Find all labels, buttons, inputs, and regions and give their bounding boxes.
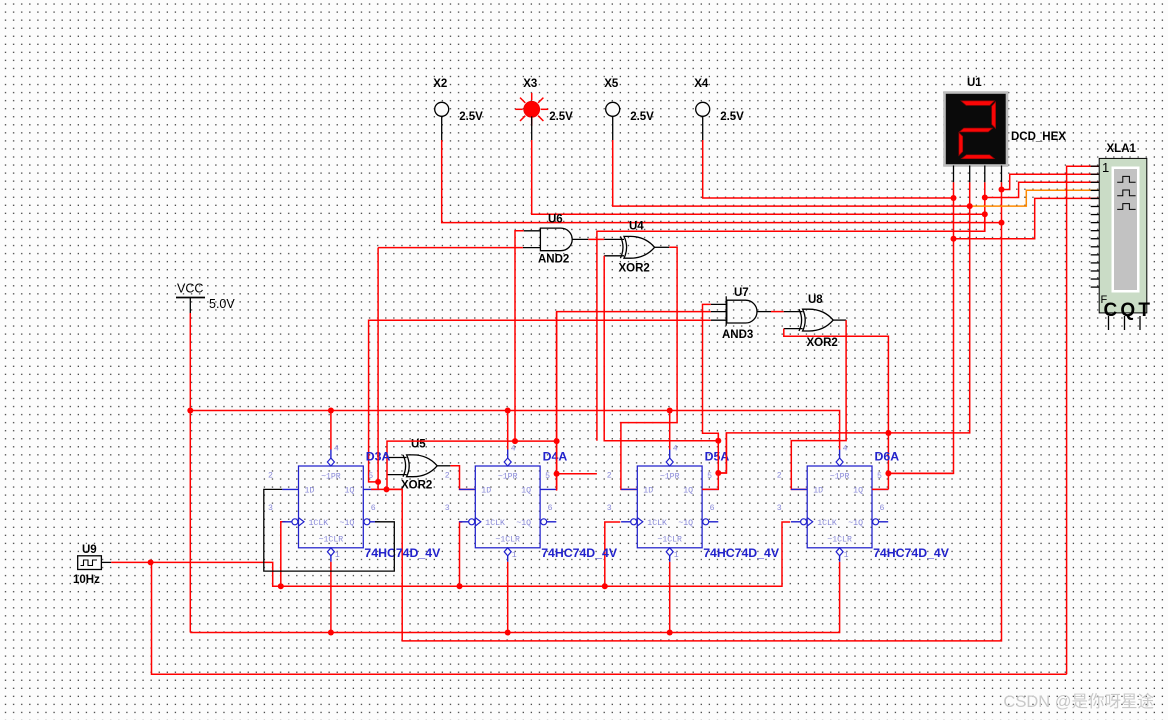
svg-text:6: 6 [880,504,885,513]
svg-text:X4: X4 [694,78,709,90]
svg-text:~1Q: ~1Q [848,519,863,528]
wire D4A Q riser [556,312,558,491]
wire Q2 jog to net B riser [557,473,597,475]
wire D3A clk drop [281,522,286,586]
wire display pin4 to XLA pin2 [1002,174,1099,189]
svg-text:1: 1 [674,551,679,560]
svg-text:1: 1 [512,551,517,560]
wire display pin1 to XLA pin5 [954,198,1099,238]
svg-text:2: 2 [268,472,273,481]
U8 input stubs [784,312,803,329]
wire D5A clk drop [605,522,621,586]
wire VCC continues down to clear rail [189,411,191,633]
svg-text:XOR2: XOR2 [807,337,838,349]
svg-text:~1CLR: ~1CLR [495,536,520,545]
junction Q nets [375,438,559,492]
probe X2 [433,78,483,140]
svg-text:X5: X5 [604,78,619,90]
7-segment display U1 DCD_HEX showing 2 [945,77,1067,166]
svg-text:4: 4 [843,445,848,454]
svg-text:XOR2: XOR2 [401,480,432,492]
svg-text:3: 3 [268,504,273,513]
wire net B riser to display pin3 column [597,214,985,440]
svg-text:DCD_HEX: DCD_HEX [1011,131,1066,143]
logic analyzer XLA1 [1091,143,1154,330]
svg-text:U6: U6 [548,213,563,225]
wire D3A feedback loop ~1Q to 1D [264,489,395,571]
svg-text:1CLK: 1CLK [485,519,505,528]
wire preset drop D5A [669,411,671,450]
U6 input stubs [523,231,541,248]
flip-flop D3A 74HC74D_4V [268,445,441,562]
AND gate U6 [538,213,572,265]
AND gate U7 [722,287,757,341]
svg-text:~1CLR: ~1CLR [827,536,852,545]
svg-text:~1PR: ~1PR [321,473,341,482]
wire display pin2 column [718,182,969,473]
probe X5 [604,78,654,140]
svg-text:2.5V: 2.5V [459,111,483,123]
svg-text:3: 3 [607,504,612,513]
wire X4 to display pin1 column [703,140,954,198]
U5 input stubs [387,458,407,475]
wire D4A clear drop [507,562,509,633]
svg-text:~1Q: ~1Q [340,519,355,528]
svg-text:D5A: D5A [705,450,730,464]
wire D3A Q riser to U6 [377,248,379,490]
svg-text:3: 3 [445,504,450,513]
probe X3 [515,78,573,140]
svg-text:~1Q: ~1Q [516,519,531,528]
svg-text:X3: X3 [523,78,537,90]
svg-text:~1PR: ~1PR [830,473,850,482]
U7 output stub [757,311,771,313]
svg-text:1D: 1D [305,487,315,496]
U4 input stubs [604,239,624,255]
svg-text:74HC74D_4V: 74HC74D_4V [364,546,441,560]
U7 input stubs [711,304,727,320]
flip-flop D5A 74HC74D_4V [607,445,780,562]
wire U8 bottom input [784,329,889,490]
svg-text:X2: X2 [433,78,447,90]
wire VCC rail to FF presets [190,411,839,450]
wire D5A Q riser [702,433,718,489]
wire preset drop D3A [330,411,332,450]
flip-flop D6A 74HC74D_4V [777,445,950,562]
svg-text:U1: U1 [967,77,982,89]
svg-text:5.0V: 5.0V [209,297,235,311]
junction U8 net [715,430,891,476]
svg-text:AND2: AND2 [538,254,569,266]
probe X4 [694,78,744,140]
U6 output stub [572,238,588,240]
svg-text:1CLK: 1CLK [309,519,329,528]
wire display pin3 to XLA pin3 [985,182,1099,197]
svg-text:4: 4 [673,445,678,454]
svg-text:~1CLR: ~1CLR [319,536,344,545]
svg-text:1: 1 [335,551,340,560]
wire X3 to display pin3 column [532,140,985,214]
svg-text:2: 2 [607,472,612,481]
wire U4 output to D5A D [621,247,677,489]
svg-text:U4: U4 [629,221,644,233]
wire clock bottom rail [152,562,1067,674]
wire net Q2 to U5 and U6 [387,441,557,489]
svg-text:~1PR: ~1PR [660,473,680,482]
svg-text:1Q: 1Q [344,487,354,496]
XOR gate U5 [401,439,437,492]
wire D5A clear drop [669,562,671,633]
svg-text:5: 5 [877,472,882,481]
wire X2 to display pin4 column [442,140,1002,223]
svg-text:1D: 1D [643,487,653,496]
svg-text:74HC74D_4V: 74HC74D_4V [703,546,780,560]
wire U7 top input from D5A Q [703,304,719,440]
wire U5 output to D4A D [450,466,475,490]
svg-text:CQT: CQT [1104,300,1154,321]
wire D3A Q run [371,488,402,490]
junction display pins [951,187,1005,242]
wire D6A Q to display pin1 column [888,472,953,474]
wire U8 output to D6A D [791,320,846,489]
XOR gate U8 [799,294,838,349]
svg-text:~1CLR: ~1CLR [657,536,682,545]
svg-text:1Q: 1Q [521,487,531,496]
svg-text:1CLK: 1CLK [647,519,667,528]
svg-text:6: 6 [548,504,553,513]
svg-text:2: 2 [445,472,450,481]
display U1 pin stubs [954,166,1002,183]
wire D6A Q riser [872,488,888,490]
svg-text:2.5V: 2.5V [630,111,654,123]
U5 output stub [437,465,450,467]
wire U6 bottom input from D3A Q [378,247,523,249]
watermark [1003,692,1154,711]
svg-text:2: 2 [777,472,782,481]
wire display pin4 column [387,182,1002,641]
svg-text:1: 1 [844,551,849,560]
svg-text:~1PR: ~1PR [498,473,518,482]
svg-text:5: 5 [545,472,550,481]
wire X5 to display pin2 column [613,140,970,206]
wire U7 out to U8 [771,311,784,313]
wire U7 middle input from D4A Q [557,312,711,490]
svg-text:U7: U7 [734,287,749,299]
junction clk rail [278,583,608,589]
svg-text:D4A: D4A [543,450,568,464]
wire clock to clk rail [151,522,791,586]
svg-text:4: 4 [334,445,339,454]
svg-text:5: 5 [707,472,712,481]
svg-text:1D: 1D [481,487,491,496]
wire U6 out to U4 [588,238,604,240]
svg-text:D6A: D6A [875,450,900,464]
U8 output stub [833,319,846,321]
svg-text:1: 1 [1102,160,1109,175]
svg-text:1D: 1D [813,487,823,496]
svg-text:1Q: 1Q [683,487,693,496]
wire U9 output [111,561,150,563]
svg-text:~1Q: ~1Q [678,519,693,528]
clock source U9 10Hz [73,544,111,586]
wire orange display pin2 to XLA pin4 [970,190,1099,206]
svg-text:10Hz: 10Hz [73,574,100,586]
flip-flop D4A 74HC74D_4V [445,445,618,562]
svg-text:6: 6 [710,504,715,513]
wire U6 top input riser [515,231,524,441]
svg-text:3: 3 [777,504,782,513]
junction VCC rail [187,408,672,414]
wire U7 bottom input from D3A Q [369,320,711,482]
svg-text:CSDN @是你呀星途: CSDN @是你呀星途 [1003,692,1154,711]
svg-text:2.5V: 2.5V [549,111,573,123]
wire U4 bottom input riser [604,256,718,441]
svg-text:VCC: VCC [177,282,203,296]
wire display pin1 column / D6A Q net [888,182,953,473]
svg-text:U5: U5 [411,439,426,451]
junction U9 branch [148,559,154,565]
wire D3A clear drop [330,562,332,633]
wire D4A clk drop [460,522,463,586]
wire D5A Q jog [718,433,726,473]
svg-text:4: 4 [511,445,516,454]
wire VCC down [189,313,191,411]
svg-text:AND3: AND3 [722,329,753,341]
U4 output stub [655,246,670,248]
svg-text:74HC74D_4V: 74HC74D_4V [873,546,950,560]
svg-text:1CLK: 1CLK [817,519,837,528]
power VCC symbol [176,282,235,314]
wire clock to XLA pin1 [1067,166,1099,674]
wire display pin3 column [984,182,986,231]
svg-text:5: 5 [368,472,373,481]
svg-text:U8: U8 [808,294,823,306]
svg-text:2.5V: 2.5V [720,111,744,123]
svg-text:74HC74D_4V: 74HC74D_4V [541,546,618,560]
svg-text:6: 6 [371,504,376,513]
wire clear rail [190,562,839,633]
svg-text:XOR2: XOR2 [619,263,650,275]
svg-text:XLA1: XLA1 [1107,143,1137,155]
XOR gate U4 [619,221,655,275]
svg-text:U9: U9 [82,544,97,556]
junction clear rail [328,630,673,636]
svg-text:1Q: 1Q [853,487,863,496]
wire preset drop D4A [507,411,509,450]
